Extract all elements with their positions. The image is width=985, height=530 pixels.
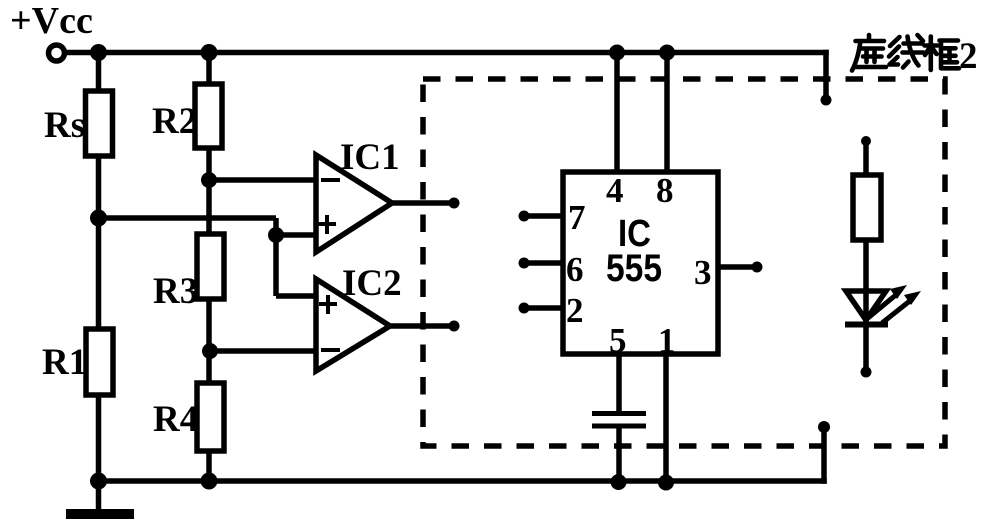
wire: top rail	[66, 50, 829, 56]
wire: to IC2 non-inverting input	[276, 293, 316, 299]
wire: resistor to LED	[863, 240, 869, 291]
svg-text:555: 555	[606, 247, 662, 290]
wire: pin 6 stub	[525, 260, 563, 266]
dashed enclosure box 2	[423, 79, 945, 446]
线	[889, 35, 924, 68]
resistor R2	[195, 84, 222, 148]
wire: pin 4 lead to top rail	[614, 53, 620, 173]
node: pin 7 stub dot	[519, 211, 530, 222]
IC2 minus sign	[321, 348, 340, 352]
+Vcc terminal circle	[49, 45, 65, 61]
op-amp IC1	[316, 155, 392, 252]
wire: Rs top lead	[96, 53, 102, 92]
wire: ground stub	[96, 481, 102, 510]
wire: top-right stub down into dashed box	[823, 50, 829, 97]
node: LED branch bottom dot	[861, 367, 872, 378]
wire: bottom ground rail	[99, 478, 827, 484]
wire: R2 top lead	[206, 53, 212, 85]
node: bottom-right stub endpoint dot	[818, 421, 830, 433]
ground symbol	[66, 509, 134, 519]
LED cathode bar	[845, 322, 888, 328]
IC 555 box	[563, 172, 718, 354]
LED diode triangle	[846, 291, 886, 320]
wire: pin 5 lead to capacitor	[616, 354, 622, 411]
LED arrow 2	[882, 291, 921, 323]
wire: sense node horizontal run	[99, 215, 277, 221]
wire: pin 8 lead to top rail	[664, 53, 670, 173]
wire: Rs bottom to R1 top	[96, 156, 102, 329]
IC1 plus sign	[318, 215, 336, 234]
wire: LED vertical lead through symbol	[863, 291, 869, 372]
svg-text:7: 7	[568, 198, 586, 237]
svg-text:6: 6	[566, 250, 584, 289]
node: IC2 output endpoint dot	[449, 321, 460, 332]
node: ground rail / left column junction	[90, 473, 107, 490]
node: capacitor / ground rail junction	[611, 474, 627, 490]
node: junction top rail / R2 column	[201, 44, 218, 61]
wire: bend down to op-amp inputs	[273, 218, 279, 296]
LED arrow 1	[868, 285, 907, 318]
wire: pin 7 stub	[525, 213, 563, 219]
wire: R2 bottom to R3 top	[206, 148, 212, 234]
node: junction top rail / pin4 lead	[609, 45, 625, 61]
svg-text:IC1: IC1	[340, 137, 400, 178]
node: pin1 / ground rail junction	[658, 475, 674, 491]
wire: IC1 output	[392, 200, 454, 206]
resistor R3	[197, 234, 224, 299]
node: IC1 output endpoint dot	[449, 198, 460, 209]
svg-text:3: 3	[694, 253, 712, 292]
node: R3/R4 divider junction	[202, 343, 218, 359]
svg-text:R1: R1	[42, 342, 87, 383]
node: top-right stub endpoint dot	[821, 95, 832, 106]
node: junction to IC1 non-inverting input	[268, 227, 284, 243]
svg-text:2: 2	[959, 36, 978, 77]
node: ground rail / R4 junction	[201, 473, 218, 490]
wire: R4 bottom to ground rail	[206, 451, 212, 481]
node: junction top rail / Rs column	[90, 44, 107, 61]
wire: pin 3 stub	[718, 264, 756, 270]
node: pin 6 stub dot	[519, 258, 530, 269]
svg-text:R3: R3	[153, 271, 198, 312]
wire: divider node to IC2 inverting input	[210, 348, 316, 354]
resistor Rs	[86, 91, 113, 156]
wire: capacitor bottom lead	[616, 428, 622, 482]
op-amp IC2	[316, 279, 390, 371]
svg-text:2: 2	[566, 291, 584, 330]
虚	[852, 35, 886, 71]
svg-text:8: 8	[656, 171, 674, 210]
node: R2/R3 divider junction	[201, 172, 217, 188]
node: junction top rail / pin8 lead	[659, 45, 675, 61]
wire: pin 2 stub	[525, 305, 563, 311]
svg-text:R4: R4	[153, 399, 198, 440]
IC1 minus sign	[321, 178, 340, 182]
框	[925, 37, 960, 71]
svg-text:4: 4	[606, 171, 624, 210]
IC2 plus sign	[319, 295, 337, 314]
wire: LED branch top lead	[863, 141, 869, 175]
resistor R4	[197, 383, 224, 451]
wire: R3 bottom to R4 top	[206, 299, 212, 383]
capacitor C (timing cap)	[592, 414, 646, 427]
wire: to IC1 non-inverting input	[276, 232, 316, 238]
label 虚线框2 (drawn strokes)	[852, 35, 959, 71]
node: pin 2 stub dot	[519, 303, 530, 314]
svg-text:R2: R2	[152, 101, 197, 142]
resistor R (LED series)	[853, 175, 881, 240]
wire: IC2 output	[390, 323, 454, 329]
svg-text:+Vcc: +Vcc	[10, 0, 93, 42]
svg-text:Rs: Rs	[44, 105, 85, 146]
node: pin 3 stub dot	[752, 262, 763, 273]
wire: pin 1 lead to ground rail	[663, 354, 669, 483]
resistor R1	[86, 329, 113, 395]
wire: bottom-right stub up into dashed box	[821, 430, 827, 484]
node: LED branch top dot	[861, 136, 871, 146]
svg-text:IC2: IC2	[342, 263, 402, 304]
wire: R1 bottom to ground rail	[96, 395, 102, 481]
node: Rs/R1 sense junction	[90, 210, 107, 227]
wire: divider node to IC1 inverting input	[209, 177, 316, 183]
